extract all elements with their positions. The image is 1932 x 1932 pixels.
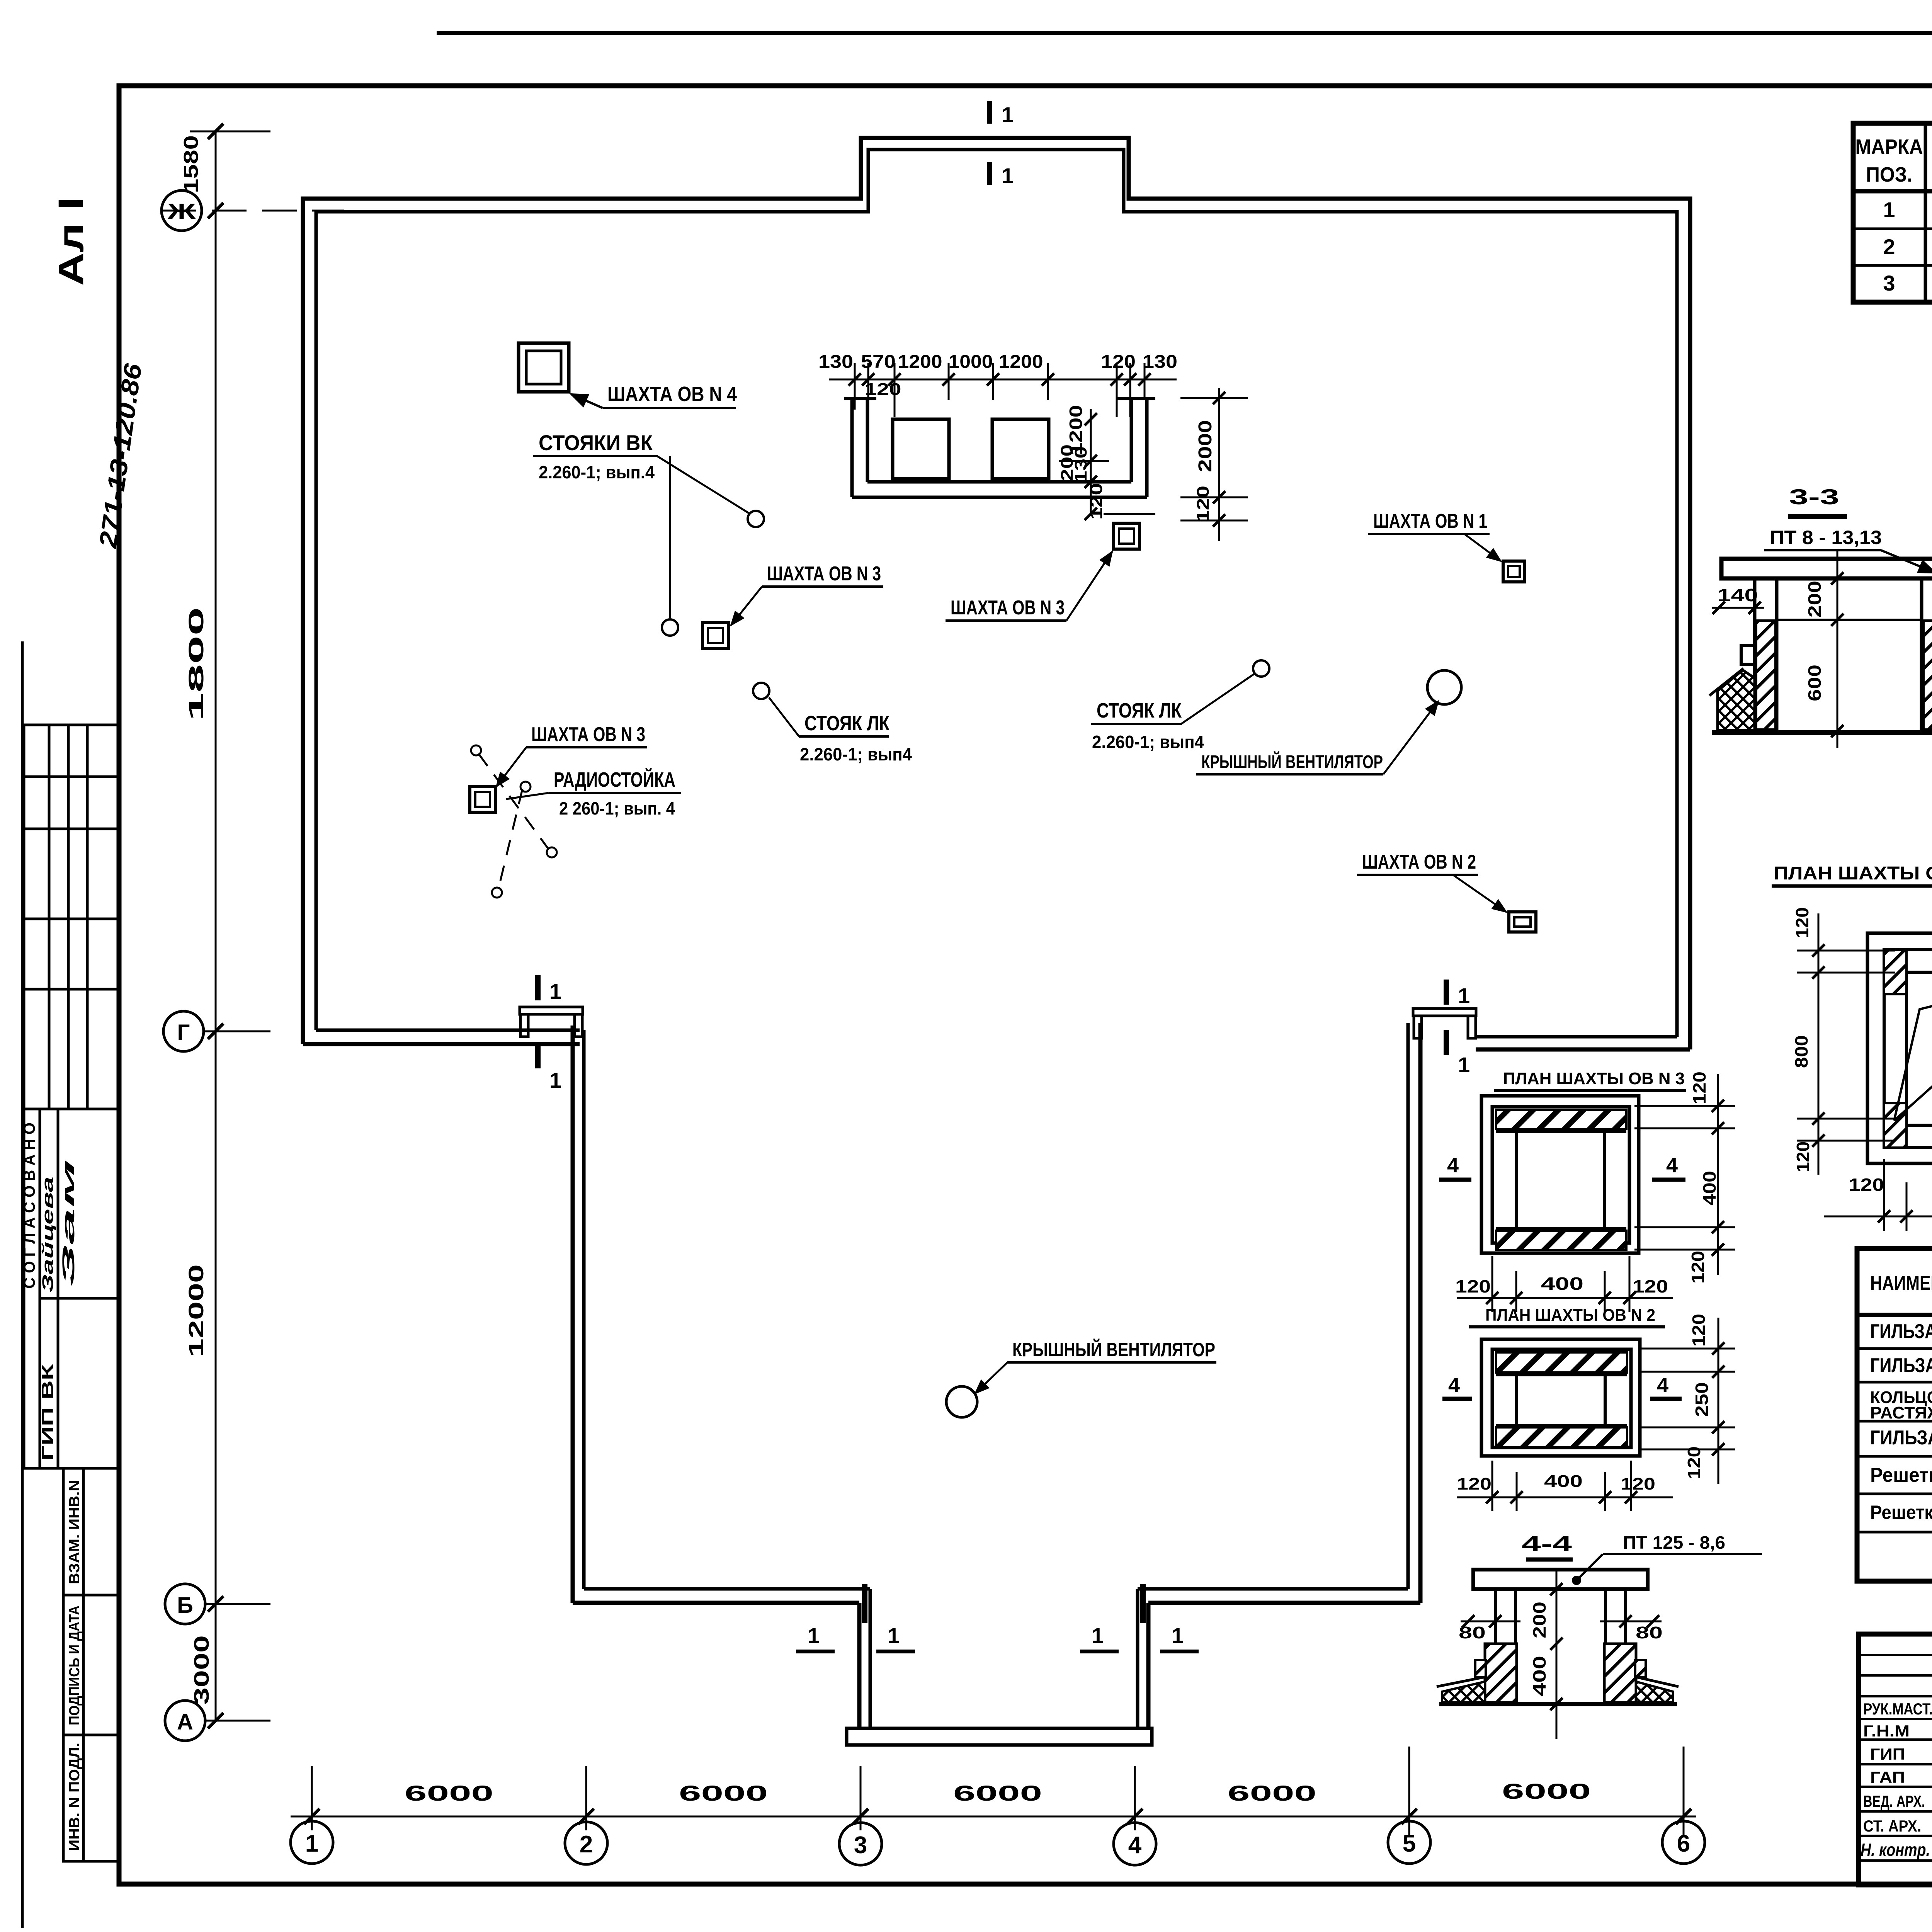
sheet outer top edge <box>437 31 1932 35</box>
section mark 1 right ledge above <box>1444 980 1449 1005</box>
riser circle VK 1 <box>748 511 764 527</box>
svg-text:ГИЛЬЗА ТЕЛЕАНТЕНЫ: ГИЛЬЗА ТЕЛЕАНТЕНЫ <box>1870 1354 1932 1377</box>
svg-text:12000: 12000 <box>185 1264 208 1357</box>
lower column right wall: outer <box>1418 1023 1423 1603</box>
PLAN-WALLS <box>303 138 1690 1745</box>
svg-text:4-4: 4-4 <box>1522 1531 1572 1556</box>
svg-text:3000: 3000 <box>190 1635 213 1705</box>
shaft N4 wall band <box>1884 950 1932 1148</box>
wall at axis G left: outer <box>303 1042 580 1046</box>
stamp box row3 <box>24 829 119 919</box>
svg-text:3: 3 <box>854 1832 867 1859</box>
3-3 ground line <box>1712 730 1932 735</box>
bottom-left wall: outer <box>573 1601 859 1605</box>
svg-text:НАИМЕНОВАНИЕ ИЗДЕЛИЙ: НАИМЕНОВАНИЕ ИЗДЕЛИЙ <box>1870 1272 1932 1294</box>
svg-text:ШАХТА ОВ N 3: ШАХТА ОВ N 3 <box>767 563 881 585</box>
svg-text:570: 570 <box>861 352 896 372</box>
3-3 slab <box>1721 559 1932 578</box>
svg-text:ШАХТА ОВ N 4: ШАХТА ОВ N 4 <box>607 383 737 406</box>
lower column right wall: inner <box>1406 1023 1410 1589</box>
svg-text:Решетка для вытирания ног: Решетка для вытирания ног <box>1870 1502 1932 1523</box>
svg-text:ПЛАН ШАХТЫ ОВ N 4: ПЛАН ШАХТЫ ОВ N 4 <box>1774 863 1932 884</box>
axis circle A <box>165 1701 205 1741</box>
3-3 center line <box>1837 549 1838 748</box>
svg-text:130: 130 <box>1071 446 1090 483</box>
svg-text:С О Г Л А С О В А Н О: С О Г Л А С О В А Н О <box>20 1122 38 1289</box>
shaft N2 bottom dims <box>1457 1497 1673 1498</box>
svg-text:РАСТЯЖЕК: РАСТЯЖЕК <box>1870 1403 1932 1422</box>
riser circle VK 2 <box>662 619 678 636</box>
svg-text:120: 120 <box>1684 1446 1704 1479</box>
leader stoyaki VK to riser circles <box>657 456 749 618</box>
4-4 slab <box>1473 1570 1648 1589</box>
svg-text:200: 200 <box>1804 581 1825 617</box>
svg-text:1000: 1000 <box>949 352 993 372</box>
bottom-right wall: outer <box>1148 1601 1420 1605</box>
svg-text:ПОЗ.: ПОЗ. <box>1866 163 1912 186</box>
TITLE-BLOCK <box>1859 1634 1932 1885</box>
4-4 hatched bases <box>1485 1644 1517 1702</box>
lower column left wall: inner <box>582 1030 586 1589</box>
3-3 right wall <box>1920 578 1923 731</box>
svg-text:200: 200 <box>1529 1602 1549 1638</box>
svg-text:130: 130 <box>1143 352 1177 372</box>
svg-text:А: А <box>177 1709 193 1735</box>
svg-text:Зам: Зам <box>59 1159 78 1287</box>
svg-text:ГИЛЬЗА СТОЯКА ВК: ГИЛЬЗА СТОЯКА ВК <box>1870 1427 1932 1449</box>
section mark 1 top bump above <box>987 101 992 124</box>
svg-text:1: 1 <box>1002 102 1014 127</box>
svg-text:ВЕД. АРХ.: ВЕД. АРХ. <box>1863 1792 1925 1810</box>
axis circle 2 <box>565 1822 607 1864</box>
axis stubs bottom <box>311 1766 313 1830</box>
leader to shaft N4 <box>571 394 603 408</box>
shaft OV N3 square mid-left <box>702 622 728 648</box>
3-3 left collar <box>1741 645 1755 664</box>
vent dims far right <box>1180 388 1248 541</box>
section marks 1-1 at left entrance tab <box>862 1584 867 1623</box>
svg-text:ПТ 8 - 13,13: ПТ 8 - 13,13 <box>1770 527 1882 548</box>
shaft N2 outer rect <box>1481 1339 1640 1456</box>
left stamp strip boxes <box>24 725 119 1861</box>
svg-text:ШАХТА ОВ N 3: ШАХТА ОВ N 3 <box>951 597 1065 619</box>
svg-text:МАРКА: МАРКА <box>1855 135 1923 158</box>
svg-text:ПТ 125 - 8,6: ПТ 125 - 8,6 <box>1623 1532 1725 1553</box>
wall at axis G right: inner <box>1476 1035 1677 1039</box>
axis circle 3 <box>839 1823 882 1865</box>
svg-text:4: 4 <box>1657 1374 1668 1397</box>
svg-text:400: 400 <box>1541 1274 1583 1294</box>
section mark 1 left ledge below <box>535 1043 541 1068</box>
svg-text:1: 1 <box>888 1623 900 1648</box>
svg-text:ПЛАН ШАХТЫ ОВ N 2: ПЛАН ШАХТЫ ОВ N 2 <box>1485 1306 1655 1325</box>
svg-text:2 260-1; вып. 4: 2 260-1; вып. 4 <box>559 798 675 818</box>
bottom horizontal dimension line <box>291 1816 1696 1818</box>
svg-text:Ал I: Ал I <box>51 197 91 286</box>
left rows <box>1859 1654 1932 1656</box>
svg-text:2000: 2000 <box>1195 420 1216 472</box>
radio-mast shaft square <box>470 787 495 812</box>
svg-text:СТ. АРХ.: СТ. АРХ. <box>1863 1817 1921 1835</box>
axis circle G <box>163 1011 204 1051</box>
svg-text:400: 400 <box>1529 1656 1549 1696</box>
4-4 walls <box>1494 1589 1497 1645</box>
riser circle LK right <box>1253 660 1269 677</box>
parapet outer line: upper roof block with top bump <box>303 138 1690 1049</box>
svg-text:ШАХТА ОВ N 1: ШАХТА ОВ N 1 <box>1373 510 1487 532</box>
shaft N2 wall band <box>1492 1349 1631 1447</box>
section marks 1-1 at right entrance tab <box>1140 1584 1146 1623</box>
svg-text:2: 2 <box>580 1831 593 1858</box>
svg-text:Г: Г <box>177 1020 190 1045</box>
shaft N4 damper lines <box>1894 975 1932 1121</box>
svg-text:6000: 6000 <box>1228 1781 1316 1805</box>
svg-text:1: 1 <box>1002 163 1014 188</box>
svg-text:6: 6 <box>1677 1830 1690 1857</box>
svg-text:Решетка для приямка: Решетка для приямка <box>1870 1464 1932 1486</box>
lower column left wall: outer <box>571 1026 575 1603</box>
svg-text:1: 1 <box>1458 983 1470 1008</box>
roof fan circle bottom <box>946 1386 977 1417</box>
svg-text:6000: 6000 <box>679 1781 768 1805</box>
riser circle LK left <box>753 683 769 699</box>
svg-text:4: 4 <box>1448 1374 1460 1397</box>
spec table grid <box>1853 123 1932 302</box>
svg-text:2.260-1; вып.4: 2.260-1; вып.4 <box>539 462 655 482</box>
inv n podl box <box>63 1735 119 1861</box>
svg-text:РУК.МАСТ.: РУК.МАСТ. <box>1863 1700 1932 1718</box>
svg-text:СТОЯК ЛК: СТОЯК ЛК <box>1097 699 1182 722</box>
svg-text:6000: 6000 <box>1502 1779 1591 1803</box>
svg-text:120: 120 <box>1101 352 1136 372</box>
svg-text:1: 1 <box>1092 1623 1104 1648</box>
4-4 center line <box>1556 1568 1558 1739</box>
svg-text:Г.Н.М: Г.Н.М <box>1863 1722 1910 1740</box>
axis circle 4 <box>1114 1823 1156 1865</box>
svg-text:120: 120 <box>1792 907 1812 938</box>
shaft N2 hatched bands <box>1496 1352 1627 1372</box>
shaft N2 inner lines <box>1496 1373 1627 1376</box>
shaft N4 outer square <box>1867 933 1932 1163</box>
left tab wall inner <box>869 1589 872 1730</box>
extension stubs left <box>190 131 270 133</box>
svg-text:1: 1 <box>549 979 561 1003</box>
svg-text:6000: 6000 <box>405 1781 493 1805</box>
svg-text:КРЫШНЫЙ ВЕНТИЛЯТОР: КРЫШНЫЙ ВЕНТИЛЯТОР <box>1201 751 1383 772</box>
axis circle 1 <box>291 1821 333 1864</box>
axis circle Zh <box>162 190 202 231</box>
3-3 opening top line <box>1777 619 1922 621</box>
svg-text:РАДИОСТОЙКА: РАДИОСТОЙКА <box>554 768 675 791</box>
parapet joint ledge right <box>1413 1009 1476 1016</box>
metal table grid <box>1857 1248 1932 1581</box>
shaft N4 left dims <box>1818 913 1820 1175</box>
svg-text:ГАП: ГАП <box>1870 1768 1905 1786</box>
svg-text:6000: 6000 <box>953 1781 1042 1805</box>
svg-text:130: 130 <box>818 352 853 372</box>
svg-text:2.260-1; вып4: 2.260-1; вып4 <box>800 744 912 764</box>
3-3 left wall <box>1753 578 1757 731</box>
svg-text:1: 1 <box>1883 197 1895 222</box>
svg-text:СТОЯК ЛК: СТОЯК ЛК <box>804 712 890 735</box>
wall at axis G left: inner <box>316 1029 580 1032</box>
left tab wall outer <box>857 1603 862 1730</box>
svg-text:2: 2 <box>1883 235 1895 259</box>
shaft OV N1 square <box>1503 561 1525 582</box>
podpis i data box <box>63 1595 119 1735</box>
svg-text:4: 4 <box>1447 1154 1459 1177</box>
sheet outer left edge <box>21 641 24 1928</box>
svg-text:ИНВ. N ПОДЛ.: ИНВ. N ПОДЛ. <box>66 1743 83 1851</box>
stamp box row1 <box>24 725 119 777</box>
svg-text:140: 140 <box>1718 585 1758 605</box>
svg-text:400: 400 <box>1544 1472 1583 1491</box>
svg-text:120: 120 <box>1689 1314 1709 1347</box>
section mark 1 left ledge above <box>535 975 541 1000</box>
3-3 left roof wedge <box>1718 670 1755 730</box>
svg-text:5: 5 <box>1403 1830 1416 1857</box>
svg-text:120: 120 <box>1849 1175 1884 1195</box>
svg-text:600: 600 <box>1804 665 1825 701</box>
svg-text:1200: 1200 <box>999 352 1043 372</box>
svg-text:400: 400 <box>1699 1171 1719 1206</box>
svg-text:1: 1 <box>305 1830 318 1857</box>
svg-text:120: 120 <box>1194 486 1213 522</box>
4-4 ground line <box>1439 1702 1677 1706</box>
4-4 roof strips cross-hatched <box>1442 1682 1485 1702</box>
shaft N4 bottom dims <box>1824 1216 1932 1218</box>
vent dims top <box>829 363 1177 417</box>
svg-text:КРЫШНЫЙ ВЕНТИЛЯТОР: КРЫШНЫЙ ВЕНТИЛЯТОР <box>1012 1338 1215 1361</box>
svg-text:1: 1 <box>808 1623 820 1648</box>
svg-text:1: 1 <box>1458 1053 1470 1077</box>
svg-text:800: 800 <box>1791 1035 1811 1068</box>
shaft N4 corner blocks <box>1884 950 1906 994</box>
shaft OV N2 rect <box>1509 912 1536 932</box>
stamp box row5 <box>24 989 119 1109</box>
ventilation unit U-walls <box>844 399 1155 497</box>
bottom-right wall: inner <box>1138 1587 1408 1591</box>
shaft N3 bottom dims <box>1457 1297 1673 1299</box>
shaft N3 outer rect <box>1481 1096 1639 1253</box>
svg-text:1580: 1580 <box>180 135 202 193</box>
bottom-left wall: inner <box>584 1587 870 1591</box>
right tab wall inner <box>1136 1589 1139 1730</box>
svg-text:Б: Б <box>177 1593 193 1618</box>
section mark 1 right ledge below <box>1444 1030 1449 1055</box>
svg-text:ПОДПИСЬ И ДАТА: ПОДПИСЬ И ДАТА <box>66 1605 83 1725</box>
svg-text:120: 120 <box>865 380 901 399</box>
axis circle B <box>165 1584 205 1624</box>
svg-text:ГИП: ГИП <box>1870 1745 1905 1763</box>
svg-text:1200: 1200 <box>898 352 942 372</box>
svg-text:Зайцева: Зайцева <box>39 1177 56 1293</box>
svg-text:120: 120 <box>1688 1251 1708 1284</box>
vzam inv box <box>63 1468 119 1595</box>
svg-text:120: 120 <box>1633 1276 1668 1296</box>
axis circle 5 <box>1388 1821 1430 1864</box>
svg-text:120: 120 <box>1689 1071 1709 1104</box>
svg-text:ГИЛЬЗА РАДИОСТОЙКИ: ГИЛЬЗА РАДИОСТОЙКИ <box>1870 1320 1932 1343</box>
shaft N3 inner lines <box>1496 1130 1626 1133</box>
svg-text:3-3: 3-3 <box>1789 485 1839 509</box>
radio-mast guy-wire dashes <box>478 753 549 889</box>
shaft OV N3 square center <box>1114 523 1139 549</box>
svg-text:Ж: Ж <box>167 199 196 223</box>
wall at axis G right: outer <box>1476 1048 1690 1052</box>
svg-text:ШАХТА ОВ N 2: ШАХТА ОВ N 2 <box>1362 851 1476 873</box>
entrance cap bar <box>847 1728 1152 1745</box>
svg-text:1: 1 <box>1172 1623 1184 1648</box>
svg-text:СТОЯКИ ВК: СТОЯКИ ВК <box>539 430 653 455</box>
svg-text:3: 3 <box>1883 271 1895 295</box>
left vertical dimension chain line <box>215 131 217 1721</box>
svg-text:Н. контр.: Н. контр. <box>1861 1840 1930 1860</box>
shaft OV N4 square <box>519 343 569 392</box>
section mark 1 top bump inside <box>987 162 992 185</box>
parapet joint ledge left <box>520 1007 583 1014</box>
stamp box row2 <box>24 777 119 829</box>
shaft N3 right dims <box>1717 1074 1719 1275</box>
AXES <box>162 131 1696 1835</box>
axis circle 6 <box>1662 1821 1705 1864</box>
guy anchor circles <box>471 745 481 755</box>
roof fan circle top <box>1427 670 1461 704</box>
svg-text:ВЗАМ. ИНВ.N: ВЗАМ. ИНВ.N <box>66 1480 83 1584</box>
3-3 dims <box>1712 607 1764 609</box>
right tab wall outer <box>1146 1603 1151 1730</box>
shaft N3 wall band <box>1492 1107 1629 1243</box>
svg-text:1: 1 <box>549 1068 561 1092</box>
shaft N2 right dims <box>1718 1318 1719 1484</box>
svg-text:120: 120 <box>1793 1141 1813 1172</box>
svg-text:250: 250 <box>1692 1382 1712 1417</box>
svg-text:2.260-1; вып4: 2.260-1; вып4 <box>1092 732 1204 752</box>
vent opening 1 <box>893 419 949 479</box>
stamp box row4 <box>24 919 119 989</box>
svg-text:120: 120 <box>1457 1475 1492 1493</box>
svg-text:ШАХТА ОВ N 3: ШАХТА ОВ N 3 <box>531 723 645 746</box>
dimension ticks on axis chains <box>208 124 223 139</box>
svg-text:ПЛАН ШАХТЫ ОВ N 3: ПЛАН ШАХТЫ ОВ N 3 <box>1503 1069 1685 1088</box>
vent opening 2 <box>992 419 1049 479</box>
svg-text:4: 4 <box>1666 1154 1678 1177</box>
svg-text:ГИП ВК: ГИП ВК <box>38 1364 56 1461</box>
svg-text:4: 4 <box>1128 1832 1142 1859</box>
parapet inner line: upper roof block <box>316 150 1677 1037</box>
svg-text:120: 120 <box>1455 1276 1491 1296</box>
vent dims right inner <box>1059 409 1155 516</box>
svg-text:120: 120 <box>1621 1475 1655 1493</box>
svg-text:120: 120 <box>1087 483 1106 520</box>
svg-text:1800: 1800 <box>185 607 208 721</box>
shaft N3 hatched bands <box>1496 1110 1626 1129</box>
soglasovano block <box>24 1109 119 1468</box>
